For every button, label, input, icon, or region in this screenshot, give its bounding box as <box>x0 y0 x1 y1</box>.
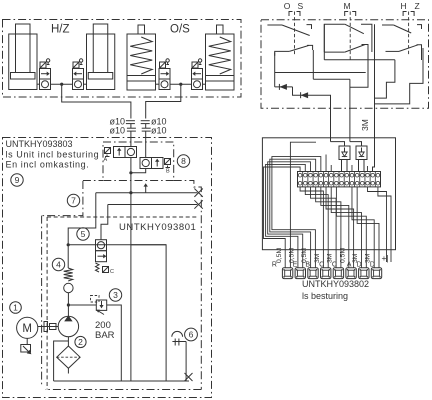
valve W2 solenoid <box>165 159 171 165</box>
pipe riser to relief valve <box>68 304 96 306</box>
svg-text:H: H <box>401 1 407 11</box>
diode D2 <box>301 92 309 98</box>
valve 5 solenoid <box>103 267 109 273</box>
port line B (to X) <box>108 204 198 206</box>
pipe check valve to pump <box>67 293 69 316</box>
item number 1 <box>10 302 22 314</box>
wire V2 to cyl2 <box>84 83 87 85</box>
breather 6 <box>172 331 183 336</box>
item number 7 <box>67 194 79 206</box>
control enclosure box <box>262 138 395 250</box>
valve check position <box>73 79 84 90</box>
svg-text:8: 8 <box>181 156 186 166</box>
filter 2 diamond <box>57 346 80 368</box>
wire O/S row2 right down <box>312 50 314 79</box>
terminal 6 <box>322 172 324 187</box>
tank line <box>54 380 189 382</box>
connector A <box>346 268 356 279</box>
valve arrow position <box>159 69 170 80</box>
wire V3 to V4 manifold <box>170 83 192 85</box>
connector D <box>371 268 381 279</box>
svg-text:3M: 3M <box>360 119 370 131</box>
motor drain box <box>26 338 28 344</box>
wire nest left side <box>264 167 301 268</box>
svg-text:9: 9 <box>15 175 20 185</box>
valve W1 check position <box>125 147 137 158</box>
check valve 4 spring <box>64 268 73 281</box>
svg-text:ls besturing: ls besturing <box>302 291 348 301</box>
relay unit stubs to terminals <box>341 160 343 172</box>
valve check position <box>159 79 170 90</box>
wire M row1 bracket long vertical <box>373 24 375 171</box>
terminal 8 <box>333 172 335 187</box>
valve 5 check position <box>96 240 107 251</box>
wire rung lower <box>313 78 350 80</box>
node merge junction <box>129 171 132 174</box>
relay diode unit 2 <box>350 142 362 146</box>
switch M contact row2 <box>324 51 345 53</box>
svg-text:ls Unit incl besturing: ls Unit incl besturing <box>6 150 100 160</box>
svg-text:BAR: BAR <box>95 330 115 341</box>
terminal 14 <box>364 172 366 187</box>
valve arrow position <box>73 69 84 80</box>
pipe O/S continue <box>145 131 147 157</box>
switch enclosure dash-dot box <box>261 20 429 109</box>
pipe size symbol O/S line <box>141 120 150 122</box>
spring <box>130 37 152 74</box>
pipe W1 down to merge <box>130 158 132 193</box>
svg-text:A: A <box>347 262 352 269</box>
item number 8 <box>177 155 189 167</box>
stub terminal 6 top <box>325 155 327 172</box>
svg-text:2: 2 <box>78 337 83 347</box>
cylinder body <box>9 34 37 90</box>
port line A (to X) <box>96 192 198 194</box>
terminal 3 <box>307 172 309 187</box>
valve W1 arrow position <box>114 147 126 158</box>
node O/S manifold junction <box>179 83 182 86</box>
switch M contact row1 <box>324 24 345 52</box>
svg-text:ø10: ø10 <box>109 126 125 136</box>
svg-text:M: M <box>344 1 351 11</box>
tank line around filter <box>54 341 69 381</box>
terminal 2 <box>302 172 304 187</box>
terminal 7 <box>328 172 330 187</box>
node H/Z manifold junction <box>60 83 63 86</box>
wire plus terminal pair <box>368 187 387 262</box>
actuator dashed line H Z <box>408 12 410 56</box>
pump 2 <box>58 316 78 336</box>
spring cylinder stem <box>138 25 145 34</box>
valve solenoid <box>40 62 46 68</box>
terminal 13 <box>359 172 361 187</box>
svg-text:M: M <box>22 323 32 335</box>
electric motor M <box>17 317 38 338</box>
valve 5 spring <box>96 263 100 272</box>
relief valve 3 arrow <box>98 311 105 315</box>
stub terminal 11 top <box>351 165 353 172</box>
svg-text:Z: Z <box>415 1 420 11</box>
svg-text:3M: 3M <box>314 253 321 263</box>
valve solenoid <box>192 62 198 68</box>
enclosure box 9 UNTKHY093803 <box>3 138 212 398</box>
svg-text:O: O <box>284 1 291 11</box>
svg-text:3M: 3M <box>352 253 359 263</box>
terminal 16 <box>374 172 376 187</box>
item number 5 <box>77 228 89 240</box>
plug bracket <box>345 12 349 17</box>
riser jog from pump to port line A <box>68 193 96 245</box>
pipe H/Z continue <box>130 131 132 146</box>
spring cylinder body <box>127 34 156 90</box>
svg-text:4: 4 <box>56 260 61 270</box>
item number 4 <box>52 258 64 270</box>
svg-text:0,5M: 0,5M <box>276 248 283 263</box>
item number 2 <box>75 336 86 347</box>
terminal 10 <box>343 172 345 187</box>
stub terminal 14 top <box>367 166 369 172</box>
switch H/Z contact row1 <box>382 24 394 26</box>
arrow up on O/S branch <box>145 186 147 193</box>
boundary box UNTKHY093801 dashed <box>46 217 48 390</box>
relief valve 3 body <box>96 300 106 310</box>
item number 6 <box>185 328 198 341</box>
cylinder piston <box>88 73 113 80</box>
wire long vertical to connector R <box>290 142 316 268</box>
terminal 4 <box>312 172 314 187</box>
switch H/Z contact row2 <box>386 50 400 52</box>
terminal 12 <box>354 172 356 187</box>
svg-text:+|: +| <box>382 253 389 263</box>
valve solenoid <box>73 62 79 68</box>
actuator dashed line M <box>349 12 351 62</box>
cylinder rod <box>16 24 31 73</box>
wire M exit to relay2 <box>349 79 351 141</box>
svg-text:0,5M: 0,5M <box>339 248 346 263</box>
wire V4 to cylO/S2 <box>203 83 206 85</box>
terminal 11 <box>348 172 350 187</box>
svg-text:3M: 3M <box>365 253 372 263</box>
cylinder rod <box>93 24 108 73</box>
svg-text:O/S: O/S <box>170 24 190 36</box>
relay diode unit 1 <box>331 142 345 146</box>
cylinder piston <box>11 73 36 80</box>
cylinder body <box>87 34 115 90</box>
enclosure box cylinders H/Z O/S <box>3 20 242 98</box>
node trunk to port line A <box>129 191 132 194</box>
spring <box>209 37 231 74</box>
svg-text:6: 6 <box>189 330 194 340</box>
connector E <box>295 268 305 279</box>
wire jog down <box>293 87 331 142</box>
pipe O/S drop <box>146 84 181 118</box>
terminal 9 <box>338 172 340 187</box>
pipe pump suction <box>67 337 69 346</box>
valve check position <box>192 79 203 90</box>
svg-text:3: 3 <box>113 290 118 300</box>
wire M row2 bracket chain <box>350 48 368 87</box>
svg-text:A: A <box>104 157 108 163</box>
connector B <box>308 268 318 279</box>
svg-text:UNTKHY093802: UNTKHY093802 <box>302 279 369 289</box>
check valve 4 ball <box>64 283 73 292</box>
pipe size symbol H/Z line <box>126 120 135 122</box>
pipe H/Z drop <box>62 84 131 118</box>
port line B to valve 5 <box>101 205 108 240</box>
pipe W2 down to merge <box>131 169 146 173</box>
wire V1 to V2 manifold <box>51 83 73 85</box>
connector C <box>333 268 343 279</box>
plug bracket <box>403 12 407 17</box>
switch O/S contact row1 <box>267 24 282 26</box>
wire nest middle <box>300 187 323 268</box>
switch O/S contact row2 <box>275 51 290 55</box>
item number 9 <box>11 174 23 186</box>
connector D <box>359 268 369 279</box>
enclosure box 8 <box>103 142 174 181</box>
valve W1 solenoid <box>105 148 111 154</box>
valve arrow position <box>40 69 51 80</box>
svg-text:H/Z: H/Z <box>51 24 70 36</box>
pump pressure manifold line <box>68 244 166 246</box>
terminal 5 <box>317 172 319 187</box>
svg-text:0,5M: 0,5M <box>301 248 308 263</box>
svg-text:B: B <box>166 169 170 175</box>
wire O/S row2 left down <box>274 53 276 87</box>
wire rung upper <box>324 59 395 61</box>
svg-text:ø10: ø10 <box>151 126 167 136</box>
wire H/Z nested chain <box>375 60 395 98</box>
svg-text:1: 1 <box>13 303 18 313</box>
wire rung long <box>275 72 366 74</box>
wire M row1 left vertical <box>323 24 325 60</box>
spring cylinder stem <box>217 25 224 34</box>
svg-text:C: C <box>110 269 114 275</box>
relief valve 3 pilot dashed box <box>91 296 100 303</box>
terminal strip <box>298 172 381 187</box>
plug X port B <box>194 200 202 208</box>
wire H/Z row2 chain <box>375 48 424 104</box>
terminal 15 <box>369 172 371 187</box>
diode D1 <box>279 84 287 90</box>
plug X tank line end <box>185 373 193 381</box>
plug bracket <box>289 12 293 17</box>
svg-text:S: S <box>298 1 304 11</box>
pipe breather down <box>185 342 187 382</box>
valve check position <box>40 79 51 90</box>
pipe relief valve drain <box>107 305 122 381</box>
wire cylO/S1 to V3 <box>156 83 160 85</box>
actuator dashed line O S <box>294 12 296 56</box>
svg-text:En incl omkasting.: En incl omkasting. <box>6 160 90 170</box>
svg-text:0,5M: 0,5M <box>289 248 296 263</box>
svg-text:5: 5 <box>81 229 86 239</box>
connector C <box>321 268 331 279</box>
spring cylinder body <box>206 34 235 90</box>
terminal 1 <box>297 172 299 187</box>
valve W2 check position <box>140 158 152 169</box>
valve arrow position <box>192 69 203 80</box>
svg-text:UNTKHY093803: UNTKHY093803 <box>6 139 73 149</box>
svg-text:7: 7 <box>71 196 76 206</box>
item number 3 <box>109 289 121 301</box>
piston lines <box>206 75 235 77</box>
connector R <box>282 268 292 279</box>
valve solenoid <box>160 62 166 68</box>
wire with diode D1 <box>275 86 293 88</box>
piston lines <box>127 75 156 77</box>
valve 5 arrow position <box>96 251 107 262</box>
branch down right <box>131 245 166 381</box>
boundary box 7 dash-dot contour <box>83 180 103 182</box>
wire cyl1 to V1 <box>37 83 40 85</box>
valve W2 arrow position <box>152 158 164 169</box>
shaft coupling <box>38 326 59 328</box>
filter drain stub <box>67 368 69 373</box>
node pump riser junction <box>67 243 70 246</box>
svg-text:3M: 3M <box>327 253 334 263</box>
stub terminal 8 top <box>330 165 332 172</box>
plug X port A <box>194 189 202 197</box>
